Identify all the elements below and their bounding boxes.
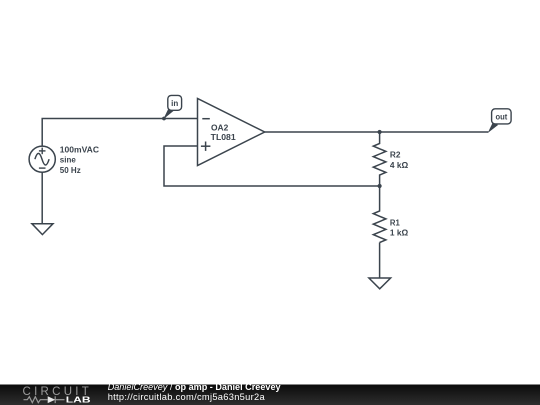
svg-text:out: out xyxy=(496,112,508,121)
logo resistor-diode glyph xyxy=(24,396,65,403)
svg-text:OA2: OA2 xyxy=(211,124,229,133)
voltage source V1 xyxy=(29,146,55,172)
node flag out xyxy=(488,109,511,133)
R1 labels xyxy=(390,219,409,238)
svg-text:4 kΩ: 4 kΩ xyxy=(390,161,409,170)
non-inverting input marker xyxy=(201,145,211,147)
wire op-amp output to out flag xyxy=(265,131,489,133)
svg-text:R1: R1 xyxy=(390,219,400,228)
svg-text:DanielCreevey / op amp - Danie: DanielCreevey / op amp - Daniel Creevey xyxy=(108,382,282,392)
svg-text:R2: R2 xyxy=(390,151,401,160)
svg-text:100mVAC: 100mVAC xyxy=(60,146,99,155)
node flag in xyxy=(162,95,182,120)
ground (left) xyxy=(32,224,53,235)
wire in net: source top to op-amp inverting input xyxy=(42,119,197,147)
svg-text:1 kΩ: 1 kΩ xyxy=(390,229,409,238)
svg-text:in: in xyxy=(171,99,178,108)
svg-text:LAB: LAB xyxy=(66,395,91,404)
svg-text:http://circuitlab.com/cmj5a63n: http://circuitlab.com/cmj5a63n5ur2a xyxy=(108,392,266,402)
V1 value labels xyxy=(60,146,99,175)
resistor R1 xyxy=(373,186,386,243)
svg-text:sine: sine xyxy=(60,156,77,165)
R2 labels xyxy=(390,151,409,170)
wire feedback: + input around to R2/R1 node xyxy=(164,146,380,186)
svg-text:50 Hz: 50 Hz xyxy=(60,166,81,175)
node out junction (output to R2) xyxy=(378,130,382,134)
feedback node junction xyxy=(378,184,382,188)
svg-text:TL081: TL081 xyxy=(211,133,237,142)
wire source bottom to ground xyxy=(41,172,43,224)
ground (right) xyxy=(369,278,391,289)
resistor R2 xyxy=(373,132,386,186)
inverting input marker xyxy=(202,118,210,120)
wire R1 bottom to ground xyxy=(379,243,381,279)
op-amp OA2 xyxy=(198,99,265,166)
